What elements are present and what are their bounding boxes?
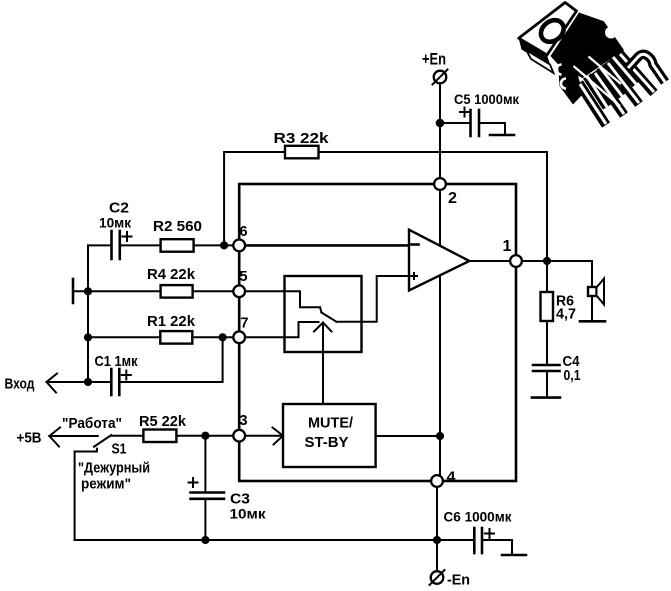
input common T-bar <box>72 279 75 303</box>
wire S1 to R5 <box>111 435 143 437</box>
node bus/R1 <box>84 333 92 341</box>
resistor R4 <box>161 285 193 298</box>
capacitor C1 <box>111 369 119 395</box>
svg-text:+5В: +5В <box>17 431 42 447</box>
package front block <box>558 64 583 105</box>
wire input to C1 <box>88 381 110 383</box>
wire R3 feedback left <box>224 152 285 245</box>
op-amp A1 <box>409 230 469 291</box>
capacitor C4 <box>533 365 560 371</box>
wire left bus to C2 <box>88 244 112 246</box>
capacitor C5 <box>471 110 480 136</box>
wire R6 to C4 <box>546 321 548 364</box>
block MUTE/ST-BY <box>283 404 376 467</box>
wire C4 to ground <box>546 371 548 397</box>
wire R4 to pin5 <box>193 290 235 292</box>
switch S1 lever <box>94 435 111 447</box>
svg-text:-En: -En <box>447 572 470 589</box>
node bus/R4 <box>84 287 92 295</box>
svg-text:"Работа": "Работа" <box>62 416 122 432</box>
package bent lead <box>628 54 665 82</box>
wire pin6 to opamp <box>246 244 410 247</box>
svg-text:4,7: 4,7 <box>556 307 576 323</box>
capacitor C6 <box>474 528 482 553</box>
package short leads <box>587 57 636 107</box>
wire pin4 down <box>436 487 438 540</box>
left bus wire <box>87 245 89 382</box>
wire bottom rail <box>75 539 437 541</box>
wire switch contact tick <box>320 307 322 312</box>
svg-text:0,1: 0,1 <box>564 368 581 384</box>
resistor R3 <box>285 146 319 159</box>
svg-text:R2 560: R2 560 <box>153 219 202 235</box>
label C3 plus <box>189 478 198 487</box>
svg-text:R4 22k: R4 22k <box>147 267 196 283</box>
svg-text:4: 4 <box>447 469 457 486</box>
switch box SW1 <box>285 276 362 352</box>
svg-text:R1 22k: R1 22k <box>147 314 196 330</box>
switch S1 contact <box>75 449 97 540</box>
pin 2 <box>434 178 446 190</box>
wire bus to R1 <box>88 336 160 338</box>
wire C3 down <box>204 499 206 541</box>
svg-text:C6 1000мк: C6 1000мк <box>444 509 513 525</box>
resistor R1 <box>160 331 192 344</box>
svg-text:2: 2 <box>448 190 457 207</box>
wire switch bottom contact <box>285 322 319 337</box>
label C6 plus <box>485 529 494 538</box>
wire opamp output <box>469 260 510 262</box>
ground C6 <box>502 554 526 557</box>
package body notch <box>605 27 617 39</box>
pin 7 <box>233 331 245 343</box>
wire supply column pin2 to pin4 <box>439 190 441 475</box>
wire speaker to ground <box>591 296 593 320</box>
wire -En drop <box>436 540 438 571</box>
wire R1 to pin7 <box>192 336 234 338</box>
switch control arrow <box>314 323 332 353</box>
resistor R6 <box>541 292 554 321</box>
label C2 plus <box>123 232 132 241</box>
wire R2 to pin6 <box>194 244 235 246</box>
pin 4 <box>431 475 443 487</box>
node output <box>543 257 551 265</box>
wire pin1 to output node <box>522 260 592 262</box>
ground C5 <box>490 134 514 137</box>
wire bus to R4 <box>88 290 161 292</box>
node input/C1 <box>84 378 92 386</box>
package tab side face <box>527 51 554 74</box>
wire switch top contact <box>285 291 321 307</box>
svg-text:MUTE/: MUTE/ <box>308 416 353 432</box>
wire C6 to ground <box>482 540 512 554</box>
wire +En down to pin2 <box>439 84 441 179</box>
svg-text:5: 5 <box>240 268 248 285</box>
IC package drawing <box>519 3 665 126</box>
svg-text:C1 1мк: C1 1мк <box>95 354 139 370</box>
svg-text:7: 7 <box>241 315 249 332</box>
package row separation lines <box>574 66 621 106</box>
svg-text:6: 6 <box>240 223 248 240</box>
arrow +5V <box>49 428 97 447</box>
ground C4 <box>532 396 560 399</box>
svg-text:10мк: 10мк <box>230 506 267 522</box>
svg-text:Вход: Вход <box>5 377 35 393</box>
svg-text:1: 1 <box>503 238 512 255</box>
wire T-bar to bus <box>73 290 88 292</box>
capacitor C3 <box>191 493 225 499</box>
package tab side edge <box>519 38 551 67</box>
node C1 riser <box>219 333 227 341</box>
label minus input <box>412 243 419 246</box>
wire C3 riser <box>204 436 206 491</box>
terminal +En <box>433 70 448 85</box>
wire output to R6 <box>546 261 548 292</box>
svg-text:S1: S1 <box>112 442 127 458</box>
node MUTE/supply <box>436 432 444 440</box>
wire C6 branch <box>437 539 473 541</box>
wire pin3 to MUTE block with arrow <box>246 428 284 445</box>
pin 1 <box>510 255 522 267</box>
node junction C5 <box>436 119 445 128</box>
wire R3 right to output column <box>319 152 548 261</box>
svg-text:"Дежурный: "Дежурный <box>78 461 150 477</box>
wire pin7 to switch box <box>246 336 285 338</box>
wire C5 branch <box>440 122 469 124</box>
resistor R5 <box>143 430 176 443</box>
wire C1 to pin7 riser <box>119 337 222 382</box>
package tab top face <box>519 3 577 56</box>
svg-text:ST-BY: ST-BY <box>305 435 349 451</box>
package long leads <box>579 53 654 125</box>
capacitor C2 <box>112 231 120 259</box>
wire C2 to R2 <box>120 244 161 246</box>
pin 5 <box>233 285 245 297</box>
svg-text:+En: +En <box>422 50 446 69</box>
wire switch output to opamp <box>337 276 410 322</box>
svg-text:10мк: 10мк <box>99 215 132 231</box>
wire C5 to ground <box>479 123 505 134</box>
arrow input <box>47 374 89 393</box>
pin 3 <box>233 430 245 442</box>
label plus input <box>411 273 417 279</box>
svg-text:C5 1000мк: C5 1000мк <box>454 91 520 107</box>
package body <box>551 13 625 79</box>
package tab hole <box>537 16 568 47</box>
pin 6 <box>233 240 245 252</box>
svg-text:3: 3 <box>240 412 248 429</box>
ground speaker <box>580 320 605 323</box>
wire R5 to pin3 <box>176 435 234 437</box>
package front notch lower <box>561 79 566 89</box>
wire control to MUTE block <box>322 352 324 404</box>
node bottom rail / -En <box>433 536 441 544</box>
wire MUTE out to supply column <box>376 435 440 437</box>
node R3/R2 junction <box>220 241 228 249</box>
package front notch upper <box>557 65 562 75</box>
terminal -En <box>430 570 445 585</box>
node C3 bottom <box>201 536 209 544</box>
svg-text:R5 22k: R5 22k <box>139 414 187 430</box>
resistor R2 <box>161 239 194 252</box>
svg-text:режим": режим" <box>81 477 131 493</box>
svg-text:R3 22k: R3 22k <box>274 131 330 147</box>
IC body U1 <box>239 184 516 481</box>
label C5 plus <box>460 108 469 117</box>
speaker BA1 <box>588 279 604 305</box>
wire pin5 to switch box <box>246 290 285 292</box>
node C3 top <box>201 432 209 440</box>
wire output to speaker <box>591 261 593 287</box>
label C1 plus <box>122 371 131 380</box>
switch lever <box>322 313 337 322</box>
